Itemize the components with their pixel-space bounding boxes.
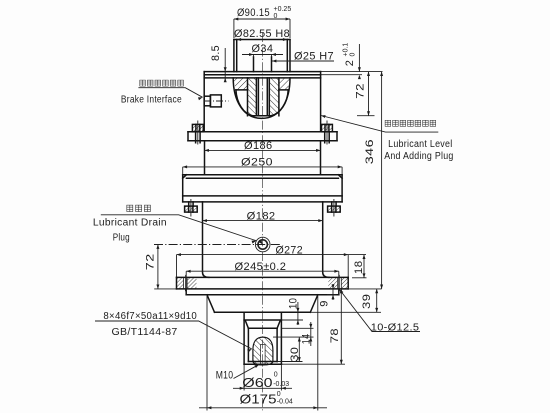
svg-text:8×46f7×50a11×9d10: 8×46f7×50a11×9d10	[103, 311, 197, 322]
svg-text:39: 39	[361, 294, 373, 309]
svg-text:78: 78	[329, 328, 341, 343]
svg-text:346: 346	[364, 139, 376, 164]
svg-text:8.5: 8.5	[210, 45, 222, 61]
svg-text:Ø182: Ø182	[247, 211, 276, 223]
svg-text:2: 2	[344, 60, 356, 67]
svg-text:0: 0	[277, 391, 281, 398]
svg-text:72: 72	[355, 83, 367, 99]
svg-text:10: 10	[288, 298, 300, 309]
svg-text:Ø175: Ø175	[240, 393, 277, 407]
svg-text:M10: M10	[216, 370, 234, 382]
svg-text:Ø245±0.2: Ø245±0.2	[235, 261, 287, 273]
svg-text:Plug: Plug	[113, 233, 130, 244]
svg-text:0: 0	[350, 53, 357, 57]
svg-text:Ø90.15: Ø90.15	[237, 7, 270, 19]
svg-text:Ø250: Ø250	[241, 157, 273, 169]
svg-text:18: 18	[353, 261, 365, 275]
svg-text:Ø25 H7: Ø25 H7	[294, 51, 334, 63]
svg-text:72: 72	[145, 253, 157, 270]
svg-text:30: 30	[289, 347, 301, 362]
svg-text:-0.03: -0.03	[273, 381, 289, 388]
svg-text:0: 0	[274, 371, 278, 378]
svg-text:Ø272: Ø272	[276, 245, 304, 257]
svg-text:+0.25: +0.25	[274, 6, 292, 13]
svg-text:9: 9	[319, 300, 331, 307]
svg-text:Ø60: Ø60	[242, 376, 272, 390]
svg-text:Brake Interface: Brake Interface	[121, 95, 182, 106]
svg-text:Lubricant Drain: Lubricant Drain	[93, 217, 167, 228]
svg-text:GB/T1144-87: GB/T1144-87	[112, 327, 178, 338]
svg-text:Ø186: Ø186	[244, 140, 273, 152]
svg-text:+0.1: +0.1	[343, 43, 350, 57]
svg-text:-0.04: -0.04	[277, 399, 293, 406]
svg-text:Ø34: Ø34	[252, 43, 274, 55]
svg-text:And Adding Plug: And Adding Plug	[384, 151, 453, 162]
svg-text:Ø82.55 H8: Ø82.55 H8	[234, 28, 290, 40]
svg-text:0: 0	[274, 13, 278, 20]
svg-text:Lubricant Level: Lubricant Level	[388, 139, 452, 150]
svg-text:10-Ø12.5: 10-Ø12.5	[371, 323, 420, 334]
svg-text:14: 14	[301, 334, 313, 345]
